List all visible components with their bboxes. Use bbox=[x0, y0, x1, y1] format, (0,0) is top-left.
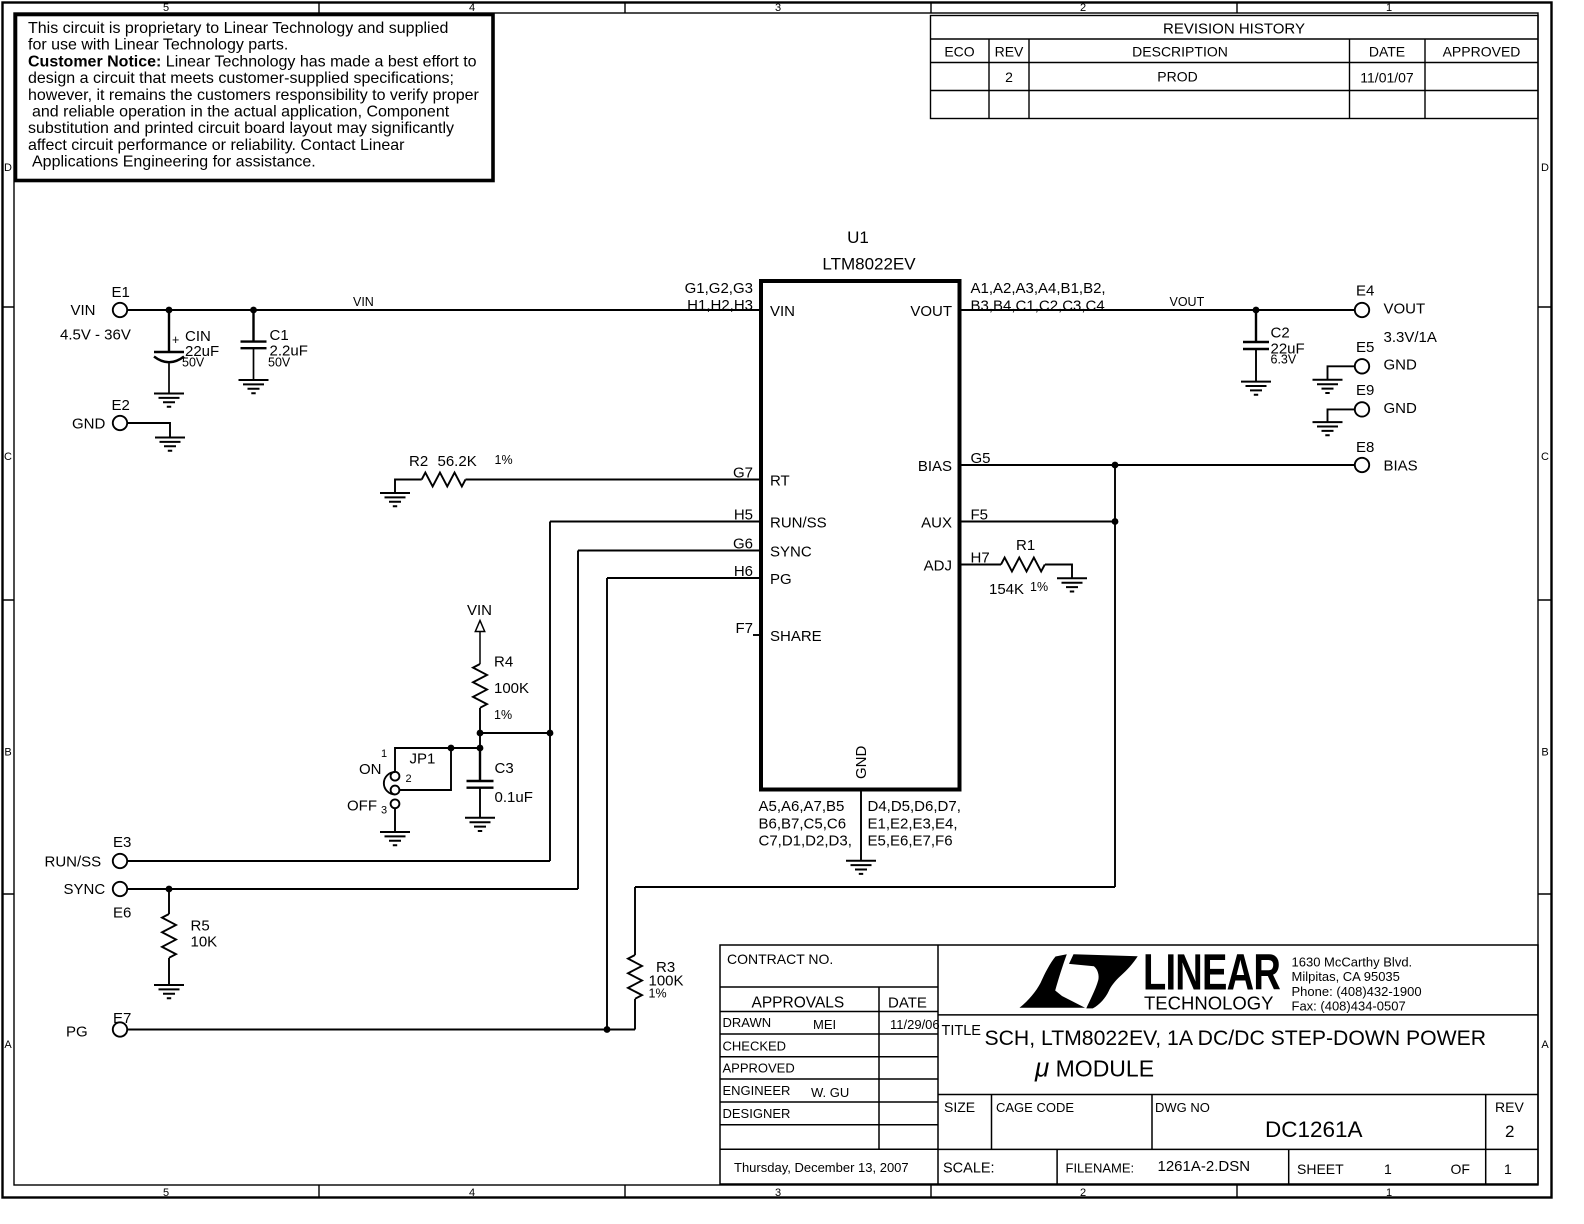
wire E7 to R3 bottom bbox=[127, 1029, 635, 1031]
revision history table bbox=[931, 16, 1539, 119]
svg-text:SHARE: SHARE bbox=[770, 628, 822, 645]
svg-text:DESIGNER: DESIGNER bbox=[723, 1106, 791, 1121]
svg-text:This circuit is proprietary to: This circuit is proprietary to Linear Te… bbox=[28, 20, 448, 37]
svg-text:2: 2 bbox=[1080, 1187, 1086, 1199]
svg-text:CAGE CODE: CAGE CODE bbox=[996, 1100, 1074, 1115]
notice box bbox=[16, 15, 494, 181]
node junction C3 top bbox=[477, 745, 484, 752]
ground at C3 bbox=[465, 818, 495, 831]
ground at R2 bbox=[380, 493, 410, 506]
wire VIN from E1 to U1 VIN pin bbox=[127, 309, 761, 311]
svg-text:G1,G2,G3: G1,G2,G3 bbox=[685, 280, 753, 297]
svg-text:B3,B4,C1,C2,C3,C4: B3,B4,C1,C2,C3,C4 bbox=[971, 298, 1105, 315]
svg-text:MEI: MEI bbox=[813, 1017, 836, 1032]
wire R4 bottom to RUN/SS net bbox=[480, 732, 550, 734]
svg-text:6.3V: 6.3V bbox=[1271, 353, 1297, 367]
wire E5 to ground bbox=[1328, 366, 1356, 380]
svg-text:DATE: DATE bbox=[1369, 44, 1405, 60]
wire AUX from U1 to vertical bbox=[960, 521, 1116, 523]
svg-text:C: C bbox=[4, 451, 12, 463]
svg-text:H1,H2,H3: H1,H2,H3 bbox=[687, 297, 753, 314]
ground at E5 bbox=[1313, 380, 1343, 393]
svg-text:1%: 1% bbox=[649, 987, 667, 1001]
wire E6 to SYNC vertical bbox=[127, 888, 578, 890]
power symbol VIN arrow bbox=[475, 621, 484, 665]
svg-text:SYNC: SYNC bbox=[64, 881, 106, 898]
svg-text:50V: 50V bbox=[268, 356, 291, 370]
svg-text:4: 4 bbox=[469, 1187, 475, 1199]
svg-text:1%: 1% bbox=[495, 453, 513, 467]
terminal E3 bbox=[113, 854, 127, 868]
svg-text:F7: F7 bbox=[735, 620, 753, 637]
svg-text:affect circuit performance or: affect circuit performance or reliabilit… bbox=[28, 137, 405, 154]
svg-text:11/29/06: 11/29/06 bbox=[890, 1017, 940, 1032]
svg-text:VOUT: VOUT bbox=[1170, 295, 1205, 309]
svg-text:Phone: (408)432-1900: Phone: (408)432-1900 bbox=[1292, 984, 1422, 999]
svg-text:VIN: VIN bbox=[353, 295, 374, 309]
svg-text:JP1: JP1 bbox=[410, 751, 436, 768]
svg-text:REVISION HISTORY: REVISION HISTORY bbox=[1163, 21, 1305, 38]
svg-text:E2: E2 bbox=[112, 397, 130, 414]
U1 pin number labels bbox=[685, 280, 1106, 850]
svg-text:APPROVALS: APPROVALS bbox=[752, 995, 845, 1012]
ground at JP1 pin3 bbox=[380, 832, 410, 845]
svg-text:E4: E4 bbox=[1356, 283, 1374, 300]
svg-text:Thursday, December 13, 2007: Thursday, December 13, 2007 bbox=[734, 1160, 909, 1175]
resistor R4 100K 1% bbox=[473, 664, 487, 733]
svg-text:3.3V/1A: 3.3V/1A bbox=[1384, 329, 1437, 346]
svg-text:5: 5 bbox=[163, 2, 169, 14]
svg-text:for use with Linear Technology: for use with Linear Technology parts. bbox=[28, 37, 288, 54]
svg-text:FILENAME:: FILENAME: bbox=[1066, 1161, 1135, 1176]
svg-text:E5,E6,E7,F6: E5,E6,E7,F6 bbox=[868, 833, 953, 850]
svg-text:1%: 1% bbox=[494, 708, 512, 722]
svg-text:PG: PG bbox=[66, 1024, 88, 1041]
capacitor C2 22uF 6.3V bbox=[1243, 310, 1269, 382]
svg-text:U1: U1 bbox=[847, 228, 869, 247]
svg-text:2: 2 bbox=[1005, 69, 1013, 85]
svg-text:PROD: PROD bbox=[1157, 69, 1197, 85]
svg-text:R2: R2 bbox=[409, 453, 428, 470]
node junction PG at R3 bbox=[604, 1026, 611, 1033]
resistor R3 100K 1% bbox=[628, 887, 642, 1030]
svg-text:154K: 154K bbox=[989, 581, 1024, 598]
svg-text:CONTRACT NO.: CONTRACT NO. bbox=[727, 951, 833, 967]
svg-text:μ MODULE: μ MODULE bbox=[1034, 1053, 1154, 1083]
svg-text:1: 1 bbox=[1504, 1161, 1512, 1177]
svg-text:DC1261A: DC1261A bbox=[1265, 1117, 1363, 1142]
svg-text:+: + bbox=[172, 333, 179, 347]
svg-text:GND: GND bbox=[853, 746, 870, 780]
svg-text:3: 3 bbox=[381, 805, 387, 817]
svg-text:Applications Engineering for a: Applications Engineering for assistance. bbox=[32, 154, 316, 171]
svg-text:VOUT: VOUT bbox=[910, 303, 952, 320]
ground at CIN bbox=[154, 394, 184, 407]
svg-text:R4: R4 bbox=[494, 654, 513, 671]
svg-text:B: B bbox=[4, 747, 11, 759]
ground at R5 bbox=[154, 985, 184, 998]
node junction BIAS bbox=[1112, 462, 1119, 469]
svg-text:R5: R5 bbox=[191, 918, 210, 935]
svg-text:D: D bbox=[1541, 162, 1549, 174]
svg-text:E1,E2,E3,E4,: E1,E2,E3,E4, bbox=[868, 816, 958, 833]
svg-text:E5: E5 bbox=[1356, 339, 1374, 356]
svg-text:1261A-2.DSN: 1261A-2.DSN bbox=[1158, 1158, 1251, 1175]
svg-text:REV: REV bbox=[1495, 1099, 1524, 1115]
svg-text:C7,D1,D2,D3,: C7,D1,D2,D3, bbox=[759, 833, 852, 850]
svg-text:A1,A2,A3,A4,B1,B2,: A1,A2,A3,A4,B1,B2, bbox=[971, 280, 1106, 297]
wire E2 to ground bbox=[127, 423, 170, 438]
svg-text:1: 1 bbox=[1386, 2, 1392, 14]
svg-text:GND: GND bbox=[72, 416, 106, 433]
svg-text:REV: REV bbox=[995, 44, 1024, 60]
svg-text:however, it remains the custom: however, it remains the customers respon… bbox=[28, 87, 480, 104]
svg-text:4.5V - 36V: 4.5V - 36V bbox=[60, 327, 131, 344]
svg-text:2: 2 bbox=[1080, 2, 1086, 14]
svg-text:1: 1 bbox=[381, 748, 387, 760]
svg-text:11/01/07: 11/01/07 bbox=[1360, 70, 1414, 86]
svg-text:CHECKED: CHECKED bbox=[723, 1039, 787, 1054]
svg-text:substitution and printed circu: substitution and printed circuit board l… bbox=[28, 120, 454, 137]
svg-text:SIZE: SIZE bbox=[944, 1099, 975, 1115]
svg-text:ECO: ECO bbox=[944, 44, 974, 60]
ground at E2 bbox=[155, 438, 185, 451]
svg-text:A5,A6,A7,B5: A5,A6,A7,B5 bbox=[759, 798, 845, 815]
svg-text:DRAWN: DRAWN bbox=[723, 1015, 772, 1030]
svg-text:LTM8022EV: LTM8022EV bbox=[822, 255, 916, 274]
wire BIAS from U1 to E8 bbox=[960, 464, 1356, 466]
wire VOUT from U1 to E4 bbox=[960, 309, 1356, 311]
svg-text:1: 1 bbox=[1384, 1161, 1392, 1177]
svg-text:3: 3 bbox=[775, 1187, 781, 1199]
svg-text:GND: GND bbox=[1384, 400, 1418, 417]
svg-text:VIN: VIN bbox=[467, 602, 492, 619]
svg-text:D4,D5,D6,D7,: D4,D5,D6,D7, bbox=[868, 798, 961, 815]
ground at C2 bbox=[1241, 382, 1271, 395]
resistor R5 10K bbox=[162, 889, 176, 985]
svg-text:0.1uF: 0.1uF bbox=[495, 789, 533, 806]
terminal E2 bbox=[113, 416, 127, 430]
svg-text:OF: OF bbox=[1451, 1161, 1470, 1177]
svg-text:W. GU: W. GU bbox=[811, 1085, 849, 1100]
wire E9 to ground bbox=[1328, 409, 1356, 422]
node junction VIN at CIN bbox=[166, 307, 173, 314]
svg-text:5: 5 bbox=[163, 1187, 169, 1199]
capacitor C1 2.2uF 50V bbox=[241, 310, 267, 380]
ground at C1 bbox=[239, 380, 269, 393]
svg-text:10K: 10K bbox=[191, 934, 218, 951]
svg-text:D: D bbox=[4, 162, 12, 174]
svg-text:C2: C2 bbox=[1271, 325, 1290, 342]
svg-text:SHEET: SHEET bbox=[1297, 1161, 1344, 1177]
svg-text:RT: RT bbox=[770, 473, 790, 490]
svg-text:1630 McCarthy Blvd.: 1630 McCarthy Blvd. bbox=[1292, 955, 1413, 970]
terminal E8 bbox=[1355, 458, 1369, 472]
svg-text:R1: R1 bbox=[1016, 537, 1035, 554]
svg-text:3: 3 bbox=[775, 2, 781, 14]
svg-text:BIAS: BIAS bbox=[918, 458, 952, 475]
U1 pin labels inside bbox=[770, 303, 952, 779]
resistor R2 56.2K 1% bbox=[395, 473, 761, 494]
ground at E9 bbox=[1313, 422, 1343, 435]
node junction JP1 pin2 bbox=[448, 745, 455, 752]
svg-text:DESCRIPTION: DESCRIPTION bbox=[1132, 44, 1228, 60]
node junction at RUN/SS vertical bbox=[547, 730, 554, 737]
svg-text:RUN/SS: RUN/SS bbox=[45, 854, 102, 871]
op-amp U1 LTM8022EV module body bbox=[761, 281, 960, 790]
svg-text:TITLE: TITLE bbox=[942, 1023, 982, 1039]
svg-text:VIN: VIN bbox=[770, 303, 795, 320]
svg-text:Fax: (408)434-0507: Fax: (408)434-0507 bbox=[1292, 999, 1406, 1014]
terminal E6 bbox=[113, 882, 127, 896]
svg-text:1: 1 bbox=[1386, 1187, 1392, 1199]
svg-text:SCH, LTM8022EV, 1A DC/DC STEP-: SCH, LTM8022EV, 1A DC/DC STEP-DOWN POWER bbox=[985, 1027, 1487, 1050]
svg-text:1%: 1% bbox=[1030, 580, 1048, 594]
svg-text:B: B bbox=[1541, 747, 1548, 759]
wire PG vertical bbox=[607, 578, 761, 1030]
svg-text:GND: GND bbox=[1384, 357, 1418, 374]
svg-text:DWG NO: DWG NO bbox=[1155, 1100, 1210, 1115]
wire AUX/BIAS net vertical bbox=[1114, 465, 1116, 887]
svg-text:RUN/SS: RUN/SS bbox=[770, 515, 827, 532]
svg-text:E1: E1 bbox=[112, 284, 130, 301]
svg-text:56.2K: 56.2K bbox=[438, 453, 477, 470]
wire RUN/SS pin to vertical bbox=[550, 521, 761, 523]
svg-text:B6,B7,C5,C6: B6,B7,C5,C6 bbox=[759, 816, 847, 833]
resistor R1 154K 1% at ADJ bbox=[960, 558, 1073, 579]
svg-text:BIAS: BIAS bbox=[1384, 458, 1418, 475]
node junction VOUT at C2 bbox=[1253, 307, 1260, 314]
node junction at R4 bottom bbox=[477, 730, 484, 737]
svg-text:E8: E8 bbox=[1356, 439, 1374, 456]
svg-text:APPROVED: APPROVED bbox=[1443, 44, 1521, 60]
title block bbox=[720, 945, 1538, 1184]
svg-text:design a circuit that meets cu: design a circuit that meets customer-sup… bbox=[28, 70, 454, 87]
svg-text:TECHNOLOGY: TECHNOLOGY bbox=[1144, 993, 1274, 1014]
terminal E1 bbox=[113, 303, 127, 317]
svg-text:VOUT: VOUT bbox=[1384, 301, 1426, 318]
Linear Technology logo bbox=[1020, 943, 1281, 1013]
wire JP1 pin1 to C3 top bbox=[395, 733, 480, 772]
wire AUX/BIAS net horizontal to R3 bbox=[635, 886, 1115, 888]
svg-text:OFF: OFF bbox=[347, 798, 377, 815]
svg-text:Customer Notice: Linear Techno: Customer Notice: Linear Technology has m… bbox=[28, 53, 477, 70]
node junction VIN at C1 bbox=[250, 307, 257, 314]
wire JP1 pin2 to junction bbox=[399, 748, 451, 790]
wire SYNC vertical bbox=[578, 551, 761, 890]
svg-text:C1: C1 bbox=[270, 327, 289, 344]
svg-text:VIN: VIN bbox=[71, 302, 96, 319]
node junction AUX bbox=[1112, 518, 1119, 525]
svg-text:A: A bbox=[1541, 1039, 1549, 1051]
svg-text:SCALE:: SCALE: bbox=[943, 1161, 995, 1177]
node junction at R5 bbox=[166, 886, 173, 893]
terminal E9 bbox=[1355, 402, 1369, 416]
svg-text:Milpitas, CA 95035: Milpitas, CA 95035 bbox=[1292, 969, 1400, 984]
svg-text:ENGINEER: ENGINEER bbox=[723, 1083, 791, 1098]
svg-text:SYNC: SYNC bbox=[770, 544, 812, 561]
terminal E7 bbox=[113, 1022, 127, 1036]
jumper JP1 bbox=[384, 772, 400, 832]
svg-text:50V: 50V bbox=[182, 356, 205, 370]
svg-text:4: 4 bbox=[469, 2, 475, 14]
capacitor C3 0.1uF bbox=[467, 748, 494, 818]
svg-text:ADJ: ADJ bbox=[924, 558, 952, 575]
svg-text:100K: 100K bbox=[494, 680, 529, 697]
pin F7 SHARE stub bbox=[753, 634, 761, 636]
svg-text:2: 2 bbox=[406, 773, 412, 785]
wire RUN/SS vertical bbox=[549, 522, 551, 862]
svg-text:E6: E6 bbox=[113, 905, 131, 922]
svg-text:2: 2 bbox=[1505, 1122, 1514, 1141]
svg-text:APPROVED: APPROVED bbox=[723, 1061, 795, 1076]
terminal E5 bbox=[1355, 359, 1369, 373]
svg-text:E7: E7 bbox=[113, 1010, 131, 1027]
capacitor CIN 22uF 50V polarized bbox=[154, 310, 184, 394]
ground at R1 bbox=[1057, 578, 1087, 591]
svg-text:A: A bbox=[4, 1039, 12, 1051]
terminal E4 bbox=[1355, 303, 1369, 317]
svg-text:ON: ON bbox=[359, 761, 382, 778]
svg-text:C3: C3 bbox=[495, 760, 514, 777]
svg-text:PG: PG bbox=[770, 571, 792, 588]
wire E3 to RUN/SS vertical bbox=[127, 860, 550, 862]
svg-text:DATE: DATE bbox=[888, 995, 927, 1012]
ground at U1 GND pin bbox=[846, 861, 876, 874]
svg-text:E9: E9 bbox=[1356, 382, 1374, 399]
svg-text:and reliable operation in the: and reliable operation in the actual app… bbox=[32, 104, 450, 121]
svg-text:E3: E3 bbox=[113, 834, 131, 851]
U1 GND pin stub bbox=[860, 790, 862, 861]
svg-text:AUX: AUX bbox=[921, 515, 952, 532]
svg-text:C: C bbox=[1541, 451, 1549, 463]
